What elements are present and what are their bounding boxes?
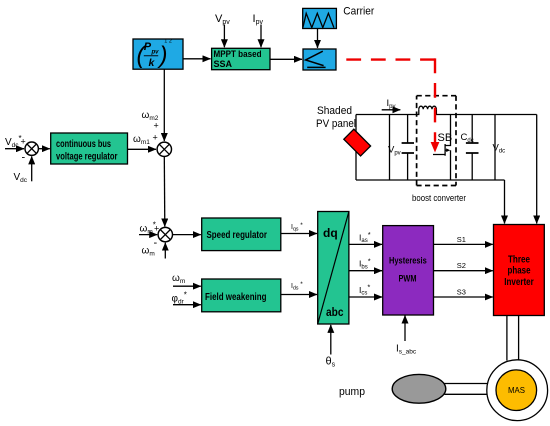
svg-text:ωm: ωm (172, 273, 185, 285)
svg-text:boost converter: boost converter (412, 193, 466, 204)
svg-text:pv: pv (151, 50, 160, 56)
svg-text:SSA: SSA (214, 59, 233, 69)
svg-text:SB: SB (438, 132, 453, 144)
svg-text:θs: θs (326, 356, 336, 369)
svg-text:Ids *: Ids * (291, 281, 303, 292)
svg-text:MPPT based: MPPT based (214, 49, 262, 59)
svg-text:Ics*: Ics* (359, 283, 370, 297)
svg-text:Hysteresis: Hysteresis (389, 256, 427, 266)
svg-text:+: + (21, 137, 26, 147)
svg-text:+: + (153, 133, 158, 143)
svg-text:S2: S2 (457, 261, 466, 270)
svg-text:Vdc: Vdc (493, 143, 506, 155)
svg-text:+: + (154, 224, 159, 234)
svg-text:MAS: MAS (508, 386, 525, 395)
svg-text:Ias*: Ias* (359, 230, 371, 244)
svg-text:Iqs *: Iqs * (291, 222, 303, 233)
svg-text:+: + (154, 121, 159, 131)
svg-text:PWM: PWM (399, 274, 417, 284)
svg-text:dq: dq (323, 226, 338, 240)
svg-text:-: - (22, 152, 26, 164)
svg-text:Ibs*: Ibs* (359, 256, 371, 270)
svg-text:voltage regulator: voltage regulator (56, 152, 118, 163)
svg-text:continuous bus: continuous bus (56, 139, 111, 150)
svg-text:Is_abc: Is_abc (396, 344, 417, 356)
svg-text:Speed regulator: Speed regulator (207, 230, 268, 241)
svg-text:Field weakening: Field weakening (205, 292, 267, 303)
svg-text:Ipv: Ipv (253, 13, 264, 26)
svg-text:Vdc*: Vdc* (5, 134, 22, 149)
svg-text:1 2: 1 2 (164, 39, 172, 45)
svg-text:Three: Three (508, 254, 530, 265)
svg-text:Carrier: Carrier (343, 5, 374, 17)
svg-text:Ipv: Ipv (387, 98, 396, 110)
svg-text:Vpv: Vpv (215, 13, 230, 26)
svg-text:S3: S3 (457, 287, 466, 296)
svg-text:φdr*: φdr* (172, 291, 187, 306)
svg-text:S1: S1 (457, 235, 466, 244)
svg-text:abc: abc (326, 305, 344, 319)
svg-text:Vpv: Vpv (388, 145, 401, 157)
svg-text:PV panel: PV panel (316, 118, 356, 130)
svg-text:pump: pump (339, 386, 365, 398)
svg-text:ωm1: ωm1 (133, 134, 150, 146)
svg-text:phase: phase (508, 266, 531, 277)
svg-text:Shaded: Shaded (317, 105, 352, 117)
svg-text:Inverter: Inverter (504, 277, 534, 288)
svg-text:Vdc: Vdc (14, 172, 28, 184)
svg-text:-: - (154, 237, 158, 249)
